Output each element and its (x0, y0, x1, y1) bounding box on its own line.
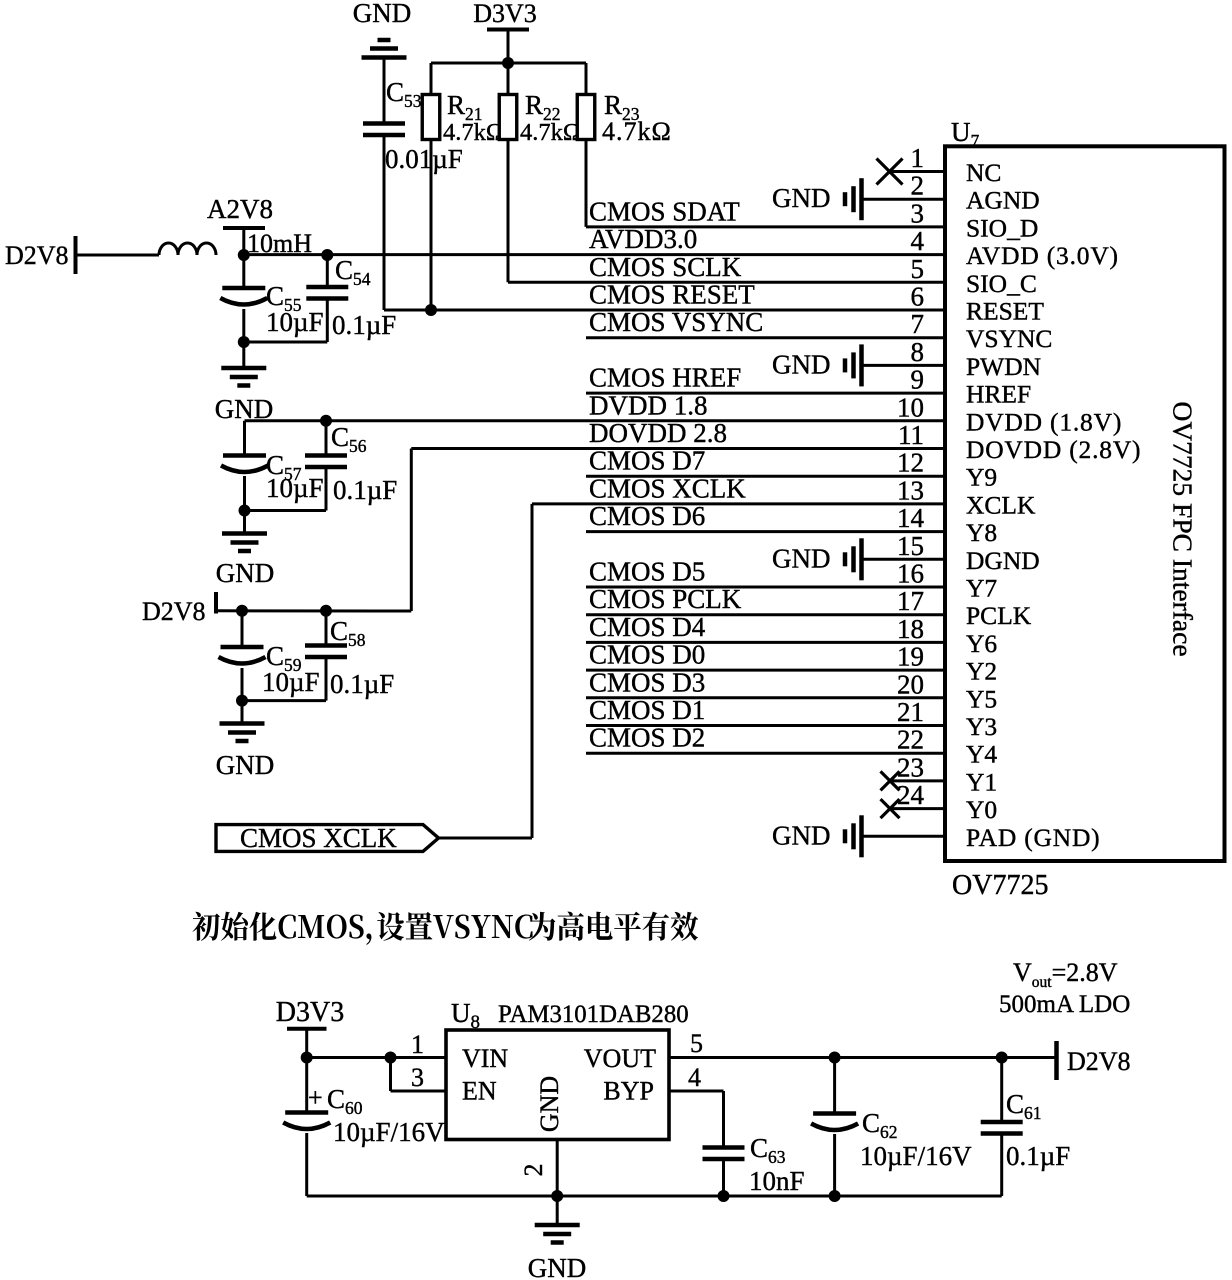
wire EN tie (391, 1058, 447, 1092)
node C56 top junction (320, 415, 332, 427)
node R21/RESET junction (425, 304, 437, 316)
svg-text:VIN: VIN (462, 1044, 508, 1073)
pin name EN (462, 1077, 497, 1106)
pin name BYP (603, 1077, 654, 1106)
resistor R23 (577, 63, 595, 227)
svg-text:17: 17 (897, 586, 924, 616)
svg-text:CMOS XCLK: CMOS XCLK (589, 473, 746, 503)
capacitor C58 (305, 611, 347, 701)
wire BYP to C63 (669, 1091, 724, 1146)
pin 6 (RESET) (384, 282, 1044, 326)
pin 9 (HREF) (586, 365, 1031, 409)
svg-text:2: 2 (911, 171, 925, 201)
svg-text:0.1µF: 0.1µF (332, 310, 396, 340)
svg-text:0.1µF: 0.1µF (330, 669, 394, 699)
svg-text:GND: GND (535, 1076, 564, 1132)
ground (LDO) (535, 1225, 580, 1243)
svg-text:24: 24 (897, 780, 925, 810)
pin 4 number (U8) (688, 1063, 701, 1092)
svg-text:OV7725: OV7725 (952, 870, 1048, 901)
pin 23 (Y1) (890, 752, 997, 796)
pin 2 number (U8, vertical) (519, 1164, 548, 1177)
pin 10 (DVDD (1.8V)) (245, 392, 1123, 436)
svg-text:500mA LDO: 500mA LDO (999, 991, 1130, 1018)
wire C54 bottom to C55 (238, 336, 327, 348)
label C61 0.1µF (1006, 1089, 1070, 1171)
svg-text:Y6: Y6 (966, 629, 997, 658)
svg-text:CMOS D3: CMOS D3 (589, 667, 705, 697)
label PAM3101DAB280 (498, 1001, 689, 1028)
capacitor C55 (220, 255, 267, 367)
svg-text:HREF: HREF (966, 380, 1031, 409)
capacitor C56 (305, 421, 347, 511)
svg-text:GND: GND (216, 558, 275, 588)
capacitor C54 (306, 255, 348, 342)
label 500mA LDO (999, 991, 1130, 1018)
regulator IC U8 box (446, 1030, 669, 1140)
svg-text:CMOS XCLK: CMOS XCLK (240, 823, 397, 853)
svg-text:PWDN: PWDN (966, 352, 1041, 381)
label Vout=2.8V (1013, 958, 1118, 991)
svg-text:DOVDD (2.8V): DOVDD (2.8V) (966, 435, 1141, 464)
svg-text:RESET: RESET (966, 297, 1044, 326)
label C53 (386, 77, 422, 111)
svg-text:D2V8: D2V8 (142, 597, 206, 626)
wire ground rail (LDO) (307, 1190, 1002, 1202)
ground (below C55) (221, 368, 266, 386)
svg-text:DOVDD 2.8: DOVDD 2.8 (589, 418, 727, 448)
svg-text:10: 10 (897, 392, 924, 422)
wire rail D3V3 (431, 62, 586, 65)
svg-text:AVDD3.0: AVDD3.0 (589, 224, 697, 254)
svg-text:8: 8 (911, 337, 925, 367)
svg-text:4.7kΩ: 4.7kΩ (520, 119, 581, 146)
label C57 10µF (266, 450, 324, 503)
label C62 10µF/16V (860, 1108, 972, 1171)
svg-text:23: 23 (897, 752, 924, 782)
svg-text:10µF/16V: 10µF/16V (860, 1141, 972, 1171)
svg-text:NC: NC (966, 158, 1001, 187)
svg-text:A2V8: A2V8 (207, 194, 273, 224)
label R23 4.7k (602, 90, 672, 146)
svg-text:CMOS SCLK: CMOS SCLK (589, 252, 742, 282)
svg-text:11: 11 (898, 420, 924, 450)
svg-text:5: 5 (690, 1029, 703, 1058)
svg-text:21: 21 (897, 697, 924, 727)
label U7 (951, 117, 980, 151)
svg-text:10nF: 10nF (749, 1166, 805, 1196)
power flag D3V3 (LDO) (276, 997, 344, 1058)
svg-text:AGND: AGND (966, 186, 1040, 215)
node C58 top junction (320, 605, 332, 617)
node C54 top junction (321, 249, 333, 261)
pin 18 (Y6) (586, 614, 997, 658)
pin 16 (Y7) (586, 559, 997, 603)
net label CMOS PCLK (589, 584, 742, 614)
svg-text:CMOS D7: CMOS D7 (589, 446, 705, 476)
svg-text:CMOS PCLK: CMOS PCLK (589, 584, 742, 614)
label R22 4.7k (520, 90, 581, 146)
pin PAD (PAD (GND)) (864, 823, 1101, 852)
ground (top, above C53) (362, 40, 407, 122)
net flag CMOS XCLK (216, 823, 439, 853)
capacitor C57 (221, 456, 268, 511)
svg-text:4: 4 (911, 226, 925, 256)
svg-text:CMOS RESET: CMOS RESET (589, 280, 755, 310)
pin 1 (NC) (890, 143, 1001, 187)
label R21 4.7k (443, 90, 504, 146)
label U8 (451, 998, 480, 1033)
pin 5 (SIO_C) (508, 254, 1037, 298)
net label CMOS D1 (589, 695, 705, 725)
wire C58 bottom to C59 (236, 695, 326, 707)
net label CMOS D5 (589, 557, 705, 587)
svg-text:1: 1 (411, 1030, 424, 1059)
svg-text:4: 4 (688, 1063, 701, 1092)
svg-text:GND: GND (772, 349, 831, 379)
port D2V8 (middle) (142, 592, 216, 626)
svg-text:Y2: Y2 (966, 657, 997, 686)
svg-text:XCLK: XCLK (966, 490, 1036, 519)
svg-text:Y8: Y8 (966, 518, 997, 547)
pin 24 (Y0) (890, 780, 997, 824)
svg-text:GND: GND (216, 750, 275, 780)
svg-text:1: 1 (911, 143, 925, 173)
net label AVDD3.0 (589, 224, 697, 254)
pin 14 (Y8) (586, 503, 997, 547)
svg-text:VOUT: VOUT (584, 1044, 656, 1073)
svg-text:CMOS D4: CMOS D4 (589, 612, 706, 642)
label C56 0.1µF (331, 422, 397, 505)
no-connect X pin 24 (881, 799, 900, 818)
svg-text:OV7725 FPC Interface: OV7725 FPC Interface (1168, 401, 1199, 656)
svg-text:VSYNC: VSYNC (966, 324, 1052, 353)
svg-text:GND: GND (353, 0, 412, 28)
net label CMOS D7 (589, 446, 705, 476)
svg-text:D2V8: D2V8 (1067, 1047, 1131, 1076)
wire C56 bottom to C57 (239, 505, 327, 517)
svg-text:Y0: Y0 (966, 795, 997, 824)
svg-text:D2V8: D2V8 (5, 241, 69, 270)
node C59 top junction (236, 605, 248, 617)
svg-text:Y4: Y4 (966, 740, 997, 769)
wire D2V8 rail (216, 449, 411, 612)
pin 3 (SIO_D) (586, 198, 1038, 242)
svg-text:PCLK: PCLK (966, 601, 1032, 630)
net label CMOS D0 (589, 640, 705, 670)
svg-text:CMOS VSYNC: CMOS VSYNC (589, 307, 763, 337)
net label CMOS XCLK (589, 473, 746, 503)
pin 3 number (U8) (411, 1063, 424, 1092)
net label CMOS HREF (589, 363, 741, 393)
capacitor C62 (811, 1058, 858, 1197)
svg-text:16: 16 (897, 559, 924, 589)
svg-text:DVDD 1.8: DVDD 1.8 (589, 390, 708, 420)
svg-text:CMOS HREF: CMOS HREF (589, 363, 741, 393)
node D3V3 junction (502, 57, 514, 69)
svg-text:GND: GND (772, 820, 831, 850)
svg-text:10µF: 10µF (262, 667, 320, 697)
svg-text:7: 7 (911, 309, 925, 339)
svg-text:GND: GND (772, 543, 831, 573)
svg-text:12: 12 (897, 448, 924, 478)
svg-text:Y9: Y9 (966, 463, 997, 492)
ground at pin 2 (772, 178, 862, 220)
label C54 0.1µF (332, 255, 396, 340)
svg-text:CMOS D2: CMOS D2 (589, 723, 705, 753)
svg-text:13: 13 (897, 475, 924, 505)
capacitor C60 (polarized) (283, 1058, 330, 1197)
GND label (below C57) (216, 558, 275, 588)
svg-text:15: 15 (897, 531, 924, 561)
svg-text:Y3: Y3 (966, 712, 997, 741)
net label CMOS D3 (589, 667, 705, 697)
port D2V8 (left) (5, 236, 76, 274)
resistor R21 (422, 63, 440, 310)
net label CMOS D4 (589, 612, 706, 642)
label OV7725 FPC Interface (vertical) (1168, 401, 1199, 656)
svg-text:3: 3 (411, 1063, 424, 1092)
svg-text:CMOS D6: CMOS D6 (589, 501, 705, 531)
pin 1 number (U8) (411, 1030, 424, 1059)
power flag A2V8 (207, 194, 273, 255)
resistor R22 (499, 63, 517, 282)
label OV7725 (below box) (952, 870, 1048, 901)
pin name VOUT (584, 1044, 656, 1073)
ground at pin 15 (772, 538, 862, 580)
pin 21 (Y3) (586, 697, 997, 741)
svg-text:PAM3101DAB280: PAM3101DAB280 (498, 1001, 689, 1028)
label C58 0.1µF (330, 616, 394, 699)
svg-text:22: 22 (897, 725, 924, 755)
svg-text:SIO_D: SIO_D (966, 213, 1038, 242)
svg-text:CMOS SDAT: CMOS SDAT (589, 196, 740, 226)
svg-text:D3V3: D3V3 (473, 0, 537, 28)
no-connect X pin 23 (881, 771, 900, 790)
svg-text:4.7kΩ: 4.7kΩ (602, 117, 672, 146)
svg-text:3: 3 (911, 198, 925, 228)
pin 17 (PCLK) (586, 586, 1032, 630)
svg-text:0.01µF: 0.01µF (385, 144, 463, 174)
label +C60 10µF/16V (308, 1083, 445, 1147)
svg-text:GND: GND (772, 183, 831, 213)
wire D3V3 to VIN (301, 1052, 446, 1064)
capacitor C59 (219, 611, 266, 701)
svg-text:5: 5 (911, 254, 925, 284)
GND label (below C59) (216, 750, 275, 780)
pin 13 (XCLK) (532, 475, 1036, 519)
net label CMOS D6 (589, 501, 705, 531)
pin 4 (AVDD (3.0V)) (244, 226, 1119, 270)
op IC U7 box (945, 146, 1225, 861)
svg-text:Y1: Y1 (966, 767, 997, 796)
net label DOVDD 2.8 (589, 418, 727, 448)
ground (below C59) (220, 701, 265, 741)
capacitor C53 (363, 124, 405, 311)
svg-text:Vout=2.8V: Vout=2.8V (1013, 958, 1118, 991)
label 10mH (247, 229, 312, 258)
label C55 10µF (266, 281, 324, 337)
pin 15 (DGND) (864, 531, 1040, 575)
svg-text:0.1µF: 0.1µF (1006, 1141, 1070, 1171)
pin 7 (VSYNC) (586, 309, 1052, 353)
ground (below C57) (222, 511, 267, 552)
wire VOUT to D2V8 (669, 1052, 1057, 1064)
svg-text:Y5: Y5 (966, 684, 997, 713)
svg-text:CMOS D5: CMOS D5 (589, 557, 705, 587)
net label DVDD 1.8 (589, 390, 708, 420)
svg-text:10µF: 10µF (266, 473, 324, 503)
pin 8 (PWDN) (864, 337, 1042, 381)
svg-text:+: + (308, 1083, 323, 1112)
ground at pin 8 (772, 344, 862, 386)
no-connect X pin 1 (877, 159, 903, 185)
svg-text:10µF: 10µF (266, 307, 324, 337)
svg-text:14: 14 (897, 503, 925, 533)
label C63 10nF (749, 1133, 805, 1196)
svg-text:Y7: Y7 (966, 574, 997, 603)
svg-text:PAD (GND): PAD (GND) (966, 823, 1100, 852)
value 0.01µF (385, 144, 463, 174)
pin name GND (vertical) (535, 1076, 564, 1132)
svg-text:AVDD (3.0V): AVDD (3.0V) (966, 241, 1119, 270)
net label CMOS SCLK (589, 252, 742, 282)
wire DVDD corner (243, 421, 246, 454)
GND label (LDO) (528, 1253, 587, 1280)
svg-text:4.7kΩ: 4.7kΩ (443, 119, 504, 146)
svg-text:EN: EN (462, 1077, 497, 1106)
svg-text:DVDD (1.8V): DVDD (1.8V) (966, 407, 1122, 436)
pin name VIN (462, 1044, 508, 1073)
GND label (top) (353, 0, 412, 28)
svg-text:6: 6 (911, 282, 925, 312)
wire D2V8 to inductor (76, 254, 160, 257)
GND label (below C55) (215, 394, 274, 424)
pin 12 (Y9) (586, 448, 997, 492)
inductor 10mH (159, 243, 216, 255)
svg-text:19: 19 (897, 642, 924, 672)
svg-text:SIO_C: SIO_C (966, 269, 1037, 298)
net label CMOS VSYNC (589, 307, 763, 337)
capacitor C63 (703, 1148, 745, 1197)
svg-text:DGND: DGND (966, 546, 1040, 575)
pin 2 (AGND) (864, 171, 1040, 215)
label C59 10µF (262, 641, 320, 697)
port D2V8 (LDO out) (1057, 1041, 1131, 1080)
svg-text:2: 2 (519, 1164, 548, 1177)
net label CMOS RESET (589, 280, 755, 310)
svg-text:GND: GND (528, 1253, 587, 1280)
net label CMOS SDAT (589, 196, 740, 226)
power flag D3V3 (top) (473, 0, 537, 63)
svg-text:BYP: BYP (603, 1077, 654, 1106)
pin 22 (Y4) (586, 725, 997, 769)
pin 11 (DOVDD (2.8V)) (411, 420, 1141, 464)
net label CMOS D2 (589, 723, 705, 753)
svg-text:20: 20 (897, 669, 924, 699)
wire GND pin 2 (U8) (556, 1140, 559, 1226)
pin 20 (Y5) (586, 669, 997, 713)
wire flag to XCLK line (438, 504, 532, 838)
pin 5 number (U8) (690, 1029, 703, 1058)
svg-text:9: 9 (911, 365, 925, 395)
node A2V8 junction (238, 249, 250, 261)
ground at PAD pin (772, 815, 862, 857)
caption text 初始化CMOS，设置VSYNC为高电平有效 (192, 912, 698, 945)
svg-text:10µF/16V: 10µF/16V (333, 1117, 445, 1147)
svg-text:D3V3: D3V3 (276, 997, 344, 1028)
capacitor C61 (981, 1058, 1023, 1197)
svg-text:CMOS D0: CMOS D0 (589, 640, 705, 670)
pin 19 (Y2) (586, 642, 997, 686)
svg-text:0.1µF: 0.1µF (333, 475, 397, 505)
svg-text:18: 18 (897, 614, 924, 644)
svg-text:CMOS D1: CMOS D1 (589, 695, 705, 725)
